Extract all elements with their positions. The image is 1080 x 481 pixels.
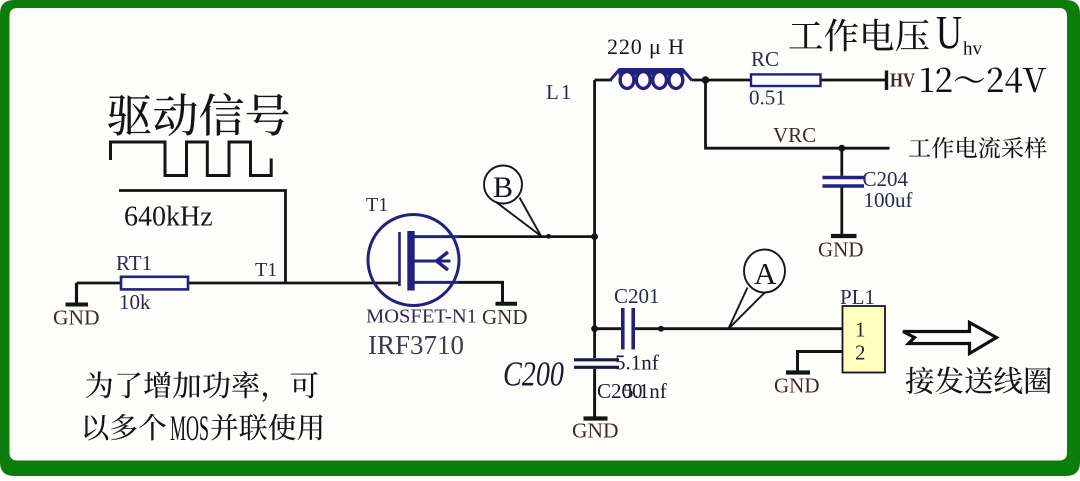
wire: junction to C201 bbox=[595, 327, 621, 330]
wire: drain node vertical net bbox=[593, 80, 596, 329]
svg-text:100uf: 100uf bbox=[864, 188, 913, 212]
svg-text:B: B bbox=[493, 171, 513, 204]
resistor RC 0.51 bbox=[749, 47, 821, 110]
svg-text:GND: GND bbox=[482, 305, 528, 329]
arrow to transmit coil bbox=[903, 323, 997, 354]
svg-text:5.1nf: 5.1nf bbox=[623, 379, 667, 403]
ground (C200) bbox=[572, 419, 619, 443]
svg-text:GND: GND bbox=[818, 238, 864, 262]
svg-text:RT1: RT1 bbox=[116, 251, 152, 275]
wire: gate net from GND stub through RT1 to MOSFET gate bbox=[77, 282, 401, 285]
annotation 接发送线圈 bbox=[906, 367, 1051, 394]
node B balloon callout bbox=[484, 166, 551, 239]
node A balloon callout bbox=[728, 250, 785, 329]
svg-text:640kHz: 640kHz bbox=[124, 202, 213, 233]
wire: PL1 pin2 to ground bbox=[798, 352, 843, 372]
ground (MOSFET source) bbox=[482, 304, 528, 329]
transistor MOSFET-N1 IRF3710 bbox=[366, 194, 477, 360]
ground (C204) bbox=[818, 236, 864, 262]
wire: underline from square wave down to gate net bbox=[119, 191, 286, 284]
svg-text:A: A bbox=[754, 256, 777, 291]
connector PL1 bbox=[840, 285, 885, 373]
annotation 工作电压 Uhv bbox=[789, 19, 928, 52]
svg-text:U: U bbox=[936, 7, 962, 60]
wire: source to ground bbox=[459, 282, 503, 302]
wire: L1 to RC and HV bbox=[692, 79, 887, 82]
svg-text:VRC: VRC bbox=[773, 123, 816, 147]
capacitor C200 bbox=[503, 329, 667, 417]
svg-text:220 μ H: 220 μ H bbox=[607, 34, 684, 59]
svg-text:GND: GND bbox=[53, 306, 100, 330]
svg-text:GND: GND bbox=[572, 419, 619, 443]
svg-text:MOSFET-N1: MOSFET-N1 bbox=[366, 306, 477, 328]
annotation 以多个MOS并联使用 bbox=[84, 414, 166, 441]
svg-text:RC: RC bbox=[751, 47, 779, 71]
node: junction VRC/C204 bbox=[838, 145, 845, 152]
svg-text:hv: hv bbox=[963, 39, 983, 60]
annotation 驱动信号 (drive signal) bbox=[108, 93, 289, 136]
annotation 为了增加功率，可 bbox=[86, 371, 318, 402]
svg-text:PL1: PL1 bbox=[840, 285, 875, 309]
node: junction center/C200/C201 bbox=[591, 325, 598, 332]
svg-text:C200: C200 bbox=[503, 355, 564, 394]
inductor L1 220uH bbox=[546, 34, 692, 104]
power port HV bbox=[887, 70, 916, 92]
annotation 12~24V bbox=[921, 68, 1046, 93]
wire: drain to node B net bbox=[459, 235, 595, 238]
square wave symbol bbox=[111, 142, 272, 176]
svg-text:T1: T1 bbox=[255, 259, 277, 281]
svg-text:IRF3710: IRF3710 bbox=[368, 330, 464, 360]
svg-text:L1: L1 bbox=[546, 80, 573, 104]
capacitor C201 5.1nf bbox=[614, 284, 660, 375]
svg-text:10k: 10k bbox=[119, 290, 151, 314]
annotation 工作电流采样 bbox=[909, 137, 1047, 159]
resistor RT1 10k bbox=[116, 251, 188, 314]
capacitor C204 100uf bbox=[823, 148, 913, 234]
svg-text:MOS: MOS bbox=[170, 408, 209, 448]
wire: VRC net bbox=[706, 80, 890, 148]
svg-text:C201: C201 bbox=[614, 284, 660, 308]
wire: C201 to PL1 pin1 bbox=[635, 327, 843, 330]
svg-text:1: 1 bbox=[855, 318, 866, 342]
svg-text:2: 2 bbox=[855, 341, 866, 365]
ground (PL1 pin2) bbox=[774, 373, 820, 398]
svg-text:5.1nf: 5.1nf bbox=[615, 351, 659, 375]
svg-text:0.51: 0.51 bbox=[749, 86, 786, 110]
node: junction L1/RC/VRC bbox=[702, 76, 710, 84]
svg-text:HV: HV bbox=[890, 70, 915, 92]
svg-text:GND: GND bbox=[774, 374, 820, 398]
node: junction drain/vertical bbox=[591, 233, 598, 240]
svg-text:T1: T1 bbox=[366, 194, 388, 216]
ground (left of RT1) bbox=[53, 283, 100, 330]
